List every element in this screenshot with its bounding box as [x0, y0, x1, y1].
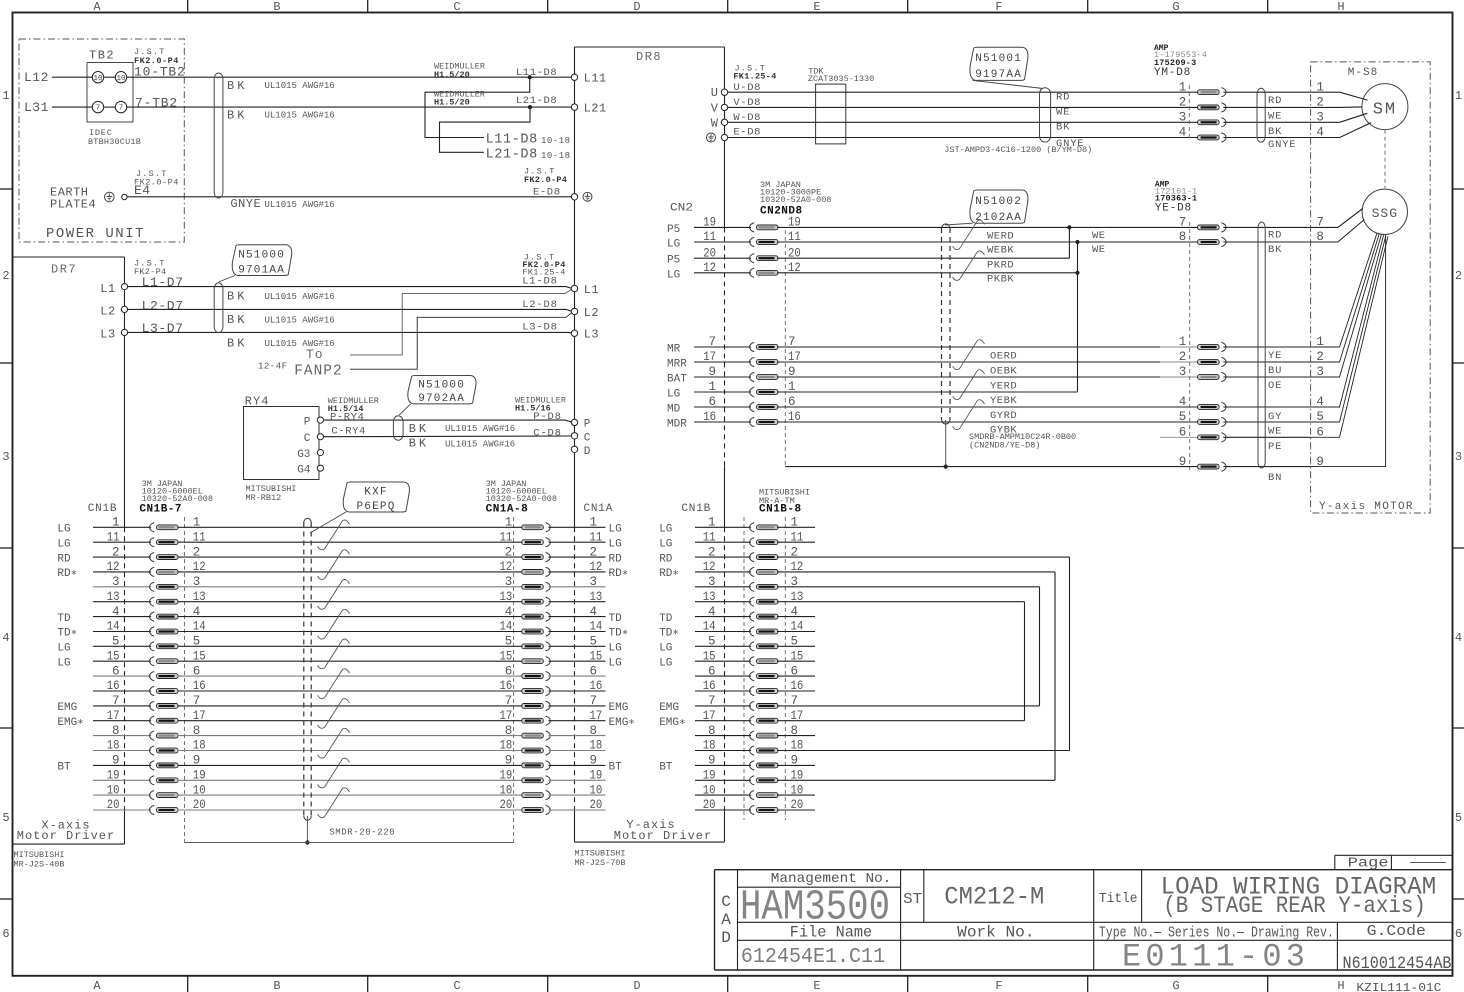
svg-text:1: 1	[505, 516, 513, 530]
svg-text:15: 15	[500, 649, 513, 663]
svg-text:LG: LG	[659, 538, 672, 550]
SMDR-20-220 cable sheath (dashed)	[303, 523, 305, 817]
cable sheath to SSG encoder	[1258, 222, 1265, 468]
svg-text:UL1015 AWG#16: UL1015 AWG#16	[445, 440, 515, 450]
svg-text:9: 9	[1179, 455, 1187, 469]
svg-text:MR-J2S-70B: MR-J2S-70B	[575, 858, 626, 868]
connector boundary dashed lines	[184, 517, 186, 843]
svg-text:L2-D7: L2-D7	[142, 298, 184, 313]
wire WE to YE-D8 pin 7	[1069, 226, 1197, 228]
svg-text:RD: RD	[609, 553, 623, 565]
svg-text:V: V	[711, 101, 719, 115]
svg-text:E4: E4	[134, 183, 151, 198]
wire V-D8 to YM-D8 pin 2	[728, 106, 1198, 108]
svg-text:LG: LG	[609, 524, 622, 536]
svg-text:BT: BT	[659, 762, 673, 774]
svg-text:DR7: DR7	[51, 263, 77, 277]
svg-text:LG: LG	[609, 643, 622, 655]
svg-text:12: 12	[590, 560, 603, 574]
svg-text:17: 17	[590, 709, 603, 723]
svg-text:UL1015 AWG#16: UL1015 AWG#16	[265, 339, 335, 349]
svg-text:MR: MR	[667, 344, 681, 356]
svg-text:L12: L12	[24, 70, 49, 85]
svg-text:GNYE: GNYE	[1268, 139, 1296, 151]
svg-text:E: E	[813, 979, 820, 992]
X-axis motor driver box	[13, 256, 125, 258]
svg-text:L11-D8: L11-D8	[486, 133, 538, 148]
servo motor SM	[1362, 84, 1408, 130]
svg-text:BK: BK	[227, 79, 247, 93]
svg-text:WE: WE	[1268, 426, 1282, 438]
svg-text:LG: LG	[57, 524, 70, 536]
svg-text:Title: Title	[1099, 891, 1138, 907]
svg-text:TD: TD	[609, 613, 623, 625]
svg-text:D: D	[633, 979, 640, 992]
svg-text:RD: RD	[659, 553, 673, 565]
wire YE-D8 pin 6 to M-S8	[1223, 436, 1310, 438]
svg-text:BK: BK	[409, 422, 429, 436]
svg-text:G: G	[1172, 0, 1179, 14]
svg-text:8: 8	[505, 724, 513, 738]
svg-text:OEBK: OEBK	[990, 366, 1017, 378]
svg-text:LG: LG	[57, 538, 70, 550]
svg-text:13: 13	[500, 590, 513, 604]
svg-text:JST-AMPD3-4C16-1200 (B/YM-D8): JST-AMPD3-4C16-1200 (B/YM-D8)	[944, 145, 1092, 155]
svg-text:12: 12	[500, 560, 513, 574]
cable sheath DR7 wires	[214, 283, 223, 333]
svg-text:P: P	[304, 417, 311, 429]
svg-text:GY: GY	[1268, 411, 1282, 423]
KXF P6EPQ balloon	[343, 482, 409, 512]
wire TB2 internal top	[104, 76, 116, 78]
svg-text:L1: L1	[100, 282, 115, 296]
svg-text:BK: BK	[227, 109, 247, 123]
wire L2-D7 to DR8	[128, 309, 572, 311]
wire YE-D8 pin 8 to M-S8	[1223, 241, 1310, 243]
svg-text:BK: BK	[1268, 126, 1282, 138]
svg-text:TB2: TB2	[89, 49, 115, 63]
svg-text:9197AA: 9197AA	[975, 69, 1022, 81]
svg-text:UL1015 AWG#16: UL1015 AWG#16	[445, 424, 515, 434]
svg-text:CN2: CN2	[670, 203, 693, 215]
svg-text:4: 4	[590, 605, 598, 619]
svg-text:E-D8: E-D8	[733, 127, 761, 139]
svg-text:RD: RD	[1268, 230, 1282, 242]
svg-text:CN1B: CN1B	[681, 503, 711, 515]
cable sheath to SM motor	[1257, 88, 1265, 142]
svg-text:EMG: EMG	[659, 702, 679, 714]
svg-text:6: 6	[1455, 927, 1462, 941]
svg-text:4: 4	[1179, 126, 1187, 140]
wire 7-TB2 / L21-D8 (BK)	[127, 106, 572, 108]
svg-text:5: 5	[1179, 410, 1187, 424]
wire TB2 internal bottom	[104, 106, 116, 108]
svg-text:L1-D8: L1-D8	[522, 275, 558, 287]
svg-text:2102AA: 2102AA	[975, 212, 1022, 224]
svg-text:(CN2ND8/YE-D8): (CN2ND8/YE-D8)	[969, 441, 1040, 451]
balloon N51001 9197AA	[970, 47, 1028, 80]
To FANP2 tap wires	[350, 290, 572, 355]
svg-text:BK: BK	[227, 313, 247, 327]
svg-text:L21-D8: L21-D8	[516, 95, 557, 107]
junction LG pin 12	[1075, 271, 1079, 275]
svg-text:WE: WE	[1092, 230, 1106, 242]
svg-text:UL1015 AWG#16: UL1015 AWG#16	[265, 200, 335, 210]
balloon N51000 9702AA	[408, 376, 476, 404]
loop pin13-pin17	[1024, 602, 1026, 721]
cable sheath P/C wires	[393, 416, 403, 440]
svg-text:SMDR-20-220: SMDR-20-220	[329, 828, 395, 838]
svg-text:W: W	[711, 116, 719, 130]
svg-text:2: 2	[590, 545, 598, 559]
YE-D8 boundary dashed	[1189, 222, 1191, 470]
svg-text:Motor Driver: Motor Driver	[17, 829, 115, 843]
svg-text:2: 2	[1179, 350, 1187, 364]
DR8 terminal W	[721, 119, 727, 125]
svg-text:9: 9	[590, 754, 598, 768]
svg-text:YERD: YERD	[990, 381, 1017, 393]
wire GYBK	[777, 421, 1198, 423]
svg-text:RD: RD	[1056, 92, 1070, 104]
svg-text:L3: L3	[100, 328, 115, 342]
svg-text:RD∗: RD∗	[609, 568, 629, 580]
TB2 contact 7 (right)	[115, 101, 126, 112]
wire WEBK (LG 11)	[777, 241, 1078, 243]
encoder SSG	[1362, 189, 1407, 234]
svg-text:P: P	[584, 419, 591, 431]
svg-text:7: 7	[1179, 216, 1187, 230]
wire PKRD (P5 20)	[777, 257, 1069, 259]
svg-text:9701AA: 9701AA	[238, 264, 285, 276]
wire E-D8 to YM-D8 pin 4	[728, 137, 1198, 139]
svg-text:To: To	[306, 347, 324, 362]
svg-text:6: 6	[505, 664, 513, 678]
wire W-D8 to YM-D8 pin 3	[728, 121, 1198, 123]
svg-text:GNYE: GNYE	[230, 197, 261, 211]
svg-text:1: 1	[2, 89, 9, 103]
svg-text:N610012454AB: N610012454AB	[1343, 954, 1452, 974]
svg-text:L3: L3	[584, 328, 599, 342]
svg-text:L21: L21	[584, 101, 607, 115]
svg-text:5: 5	[505, 635, 513, 649]
svg-text:1: 1	[1455, 89, 1462, 103]
svg-text:OERD: OERD	[990, 351, 1017, 363]
wire YE-D8 pin 3 to M-S8	[1223, 376, 1310, 378]
wire L31 to TB2	[52, 106, 92, 108]
svg-text:2: 2	[1455, 269, 1462, 283]
svg-text:10: 10	[590, 783, 603, 797]
svg-text:PKBK: PKBK	[987, 273, 1014, 285]
svg-text:6: 6	[1179, 426, 1187, 440]
loop pin2-pin18	[1069, 557, 1071, 750]
title block	[715, 869, 1453, 871]
wire L1-D7 to DR8	[128, 287, 572, 289]
svg-text:MD: MD	[667, 404, 681, 416]
svg-text:UL1015 AWG#16: UL1015 AWG#16	[265, 315, 335, 325]
svg-text:2: 2	[505, 545, 513, 559]
svg-text:MDR: MDR	[667, 419, 687, 431]
svg-text:UL1015 AWG#16: UL1015 AWG#16	[265, 111, 335, 121]
svg-text:A: A	[721, 911, 731, 929]
svg-text:WEBK: WEBK	[987, 244, 1014, 256]
cable sheath for power wires	[214, 73, 223, 198]
svg-text:20: 20	[590, 798, 603, 812]
svg-text:C: C	[721, 893, 731, 911]
svg-text:4: 4	[1179, 395, 1187, 409]
wire YE-D8 pin 7 to M-S8	[1223, 226, 1310, 228]
TB2 contact 10 (left)	[92, 72, 103, 83]
svg-text:N51002: N51002	[975, 196, 1022, 208]
svg-text:11: 11	[590, 530, 603, 544]
DR8 terminal L1	[571, 285, 577, 291]
balloon N51002 2102AA	[970, 190, 1028, 223]
svg-text:7: 7	[96, 105, 101, 113]
svg-text:8: 8	[1179, 230, 1187, 244]
svg-text:C-RY4: C-RY4	[331, 426, 366, 438]
svg-text:3: 3	[505, 575, 513, 589]
svg-text:11: 11	[500, 530, 513, 544]
DR8 terminal D	[571, 446, 577, 452]
svg-text:3: 3	[590, 575, 598, 589]
svg-text:P-D8: P-D8	[533, 411, 561, 423]
svg-text:Page: Page	[1348, 856, 1389, 872]
svg-text:BAT: BAT	[667, 374, 687, 386]
wire PKBK (LG 12)	[777, 272, 1078, 274]
svg-text:WERD: WERD	[987, 231, 1014, 243]
svg-text:15: 15	[590, 649, 603, 663]
RY4 terminal G3	[317, 449, 323, 455]
svg-text:7: 7	[590, 694, 598, 708]
wire YE-D8 pin 4 to M-S8	[1223, 406, 1310, 408]
M-S8 motor enclosure (dash-dot)	[1311, 62, 1431, 513]
svg-text:1: 1	[1179, 335, 1187, 349]
DR8 terminal P	[571, 419, 577, 425]
svg-text:RD: RD	[1268, 95, 1282, 107]
terminal block TB2	[87, 63, 133, 123]
DR8 terminal L21	[571, 104, 577, 110]
svg-text:RD∗: RD∗	[57, 568, 77, 580]
junction LG pins 11/12	[1075, 240, 1079, 244]
RY4 terminal C	[317, 434, 323, 440]
svg-text:YM-D8: YM-D8	[1154, 67, 1191, 79]
svg-text:LG: LG	[659, 657, 672, 669]
svg-text:5: 5	[1455, 811, 1462, 825]
svg-text:12-4F: 12-4F	[258, 362, 288, 372]
loop pin3-pin7	[1039, 587, 1041, 706]
wire 10-TB2 / L11-D8 (BK)	[127, 76, 572, 78]
svg-text:G.Code: G.Code	[1367, 923, 1426, 940]
cable sheath YM-D8 run	[1040, 88, 1051, 142]
svg-text:7-TB2: 7-TB2	[135, 96, 178, 111]
svg-text:POWER UNIT: POWER UNIT	[46, 226, 145, 242]
svg-text:BN: BN	[1268, 472, 1282, 484]
RY4 box	[244, 407, 320, 480]
svg-text:4: 4	[2, 631, 9, 645]
TB2 contact 7 (left)	[92, 101, 103, 112]
svg-text:TD: TD	[57, 613, 71, 625]
svg-text:3: 3	[1455, 450, 1462, 464]
svg-text:TD∗: TD∗	[609, 628, 629, 640]
svg-text:CN1A: CN1A	[584, 503, 614, 515]
svg-text:L3-D8: L3-D8	[522, 321, 558, 333]
svg-text:M-S8: M-S8	[1348, 67, 1378, 79]
terminal E4	[122, 194, 127, 199]
svg-text:BTBH30CU1B: BTBH30CU1B	[88, 137, 141, 147]
junction P5 pins 19/20	[1067, 225, 1071, 229]
svg-text:BK: BK	[1056, 122, 1070, 134]
svg-text:N51000: N51000	[418, 379, 465, 391]
svg-text:L31: L31	[24, 100, 49, 115]
svg-text:PE: PE	[1268, 441, 1282, 453]
shield bracket line	[185, 842, 514, 844]
svg-text:G: G	[1172, 979, 1179, 992]
wire YE-D8 pin 2 to M-S8	[1223, 361, 1310, 363]
svg-text:UL1015 AWG#16: UL1015 AWG#16	[265, 81, 335, 91]
svg-text:EMG∗: EMG∗	[609, 717, 635, 729]
svg-text:BK: BK	[1268, 244, 1282, 256]
DR8 terminal U	[721, 89, 727, 95]
svg-text:LG: LG	[57, 643, 70, 655]
svg-text:WE: WE	[1268, 111, 1282, 123]
terminal L1 (DR7)	[121, 284, 127, 290]
wire E4 / GNYE earth	[127, 196, 572, 198]
svg-text:H: H	[1337, 0, 1344, 14]
svg-text:3: 3	[2, 450, 9, 464]
loop pin12-pin19	[1054, 572, 1056, 780]
terminal L2 (DR7)	[121, 306, 127, 312]
DR8 terminal L2	[571, 308, 577, 314]
svg-text:7: 7	[119, 105, 124, 113]
svg-text:CM212-M: CM212-M	[944, 883, 1044, 912]
svg-text:UL1015 AWG#16: UL1015 AWG#16	[265, 292, 335, 302]
svg-text:MRR: MRR	[667, 359, 687, 371]
wire WERD (P5 19)	[777, 226, 1069, 228]
svg-text:BK: BK	[409, 437, 429, 451]
svg-text:LG: LG	[667, 389, 680, 401]
svg-text:L3-D7: L3-D7	[142, 321, 184, 336]
svg-text:FK2.0-P4: FK2.0-P4	[524, 175, 567, 185]
svg-text:D: D	[633, 0, 640, 14]
wire YM-D8 pin 2 to M-S8	[1223, 106, 1310, 108]
svg-text:19: 19	[590, 769, 603, 783]
svg-text:N51000: N51000	[238, 250, 285, 262]
svg-text:C: C	[453, 0, 460, 14]
svg-text:A: A	[93, 0, 101, 14]
svg-text:BT: BT	[57, 762, 71, 774]
wire YE-D8 pin 9 to M-S8	[1223, 466, 1310, 468]
svg-text:B: B	[273, 979, 280, 992]
RY4 terminal G4	[317, 465, 323, 471]
svg-text:3: 3	[1179, 365, 1187, 379]
svg-text:PLATE4: PLATE4	[50, 198, 96, 212]
svg-text:N51001: N51001	[975, 53, 1022, 65]
svg-text:G4: G4	[297, 465, 311, 477]
svg-text:Motor Driver: Motor Driver	[614, 829, 712, 843]
svg-text:3: 3	[1179, 111, 1187, 125]
svg-text:YE: YE	[1268, 350, 1282, 362]
CN2 twisted pair cable (dashed sheath)	[941, 228, 943, 420]
svg-text:LG: LG	[667, 269, 680, 281]
svg-text:10-18: 10-18	[541, 151, 571, 161]
wire U-D8 to YM-D8 pin 1	[728, 91, 1198, 93]
svg-text:CN1B-7: CN1B-7	[139, 504, 182, 516]
svg-text:L1: L1	[584, 283, 599, 297]
svg-text:D: D	[721, 929, 731, 947]
svg-text:FANP2: FANP2	[294, 363, 343, 379]
svg-text:P5: P5	[667, 255, 680, 267]
svg-text:8: 8	[590, 724, 598, 738]
POWER UNIT enclosure (dash-dot)	[19, 39, 184, 242]
svg-text:14: 14	[500, 620, 513, 634]
svg-text:PKRD: PKRD	[987, 259, 1014, 271]
svg-text:CN1B: CN1B	[88, 503, 118, 515]
jumper P5 19-20	[1068, 227, 1070, 258]
svg-text:2: 2	[1179, 96, 1187, 110]
svg-text:F: F	[995, 979, 1002, 992]
svg-text:ZCAT3035-1330: ZCAT3035-1330	[808, 74, 874, 84]
wire OEBK	[777, 361, 1160, 363]
svg-text:EMG: EMG	[57, 702, 77, 714]
svg-text:KXF: KXF	[364, 487, 387, 499]
svg-text:17: 17	[500, 709, 513, 723]
svg-text:TD∗: TD∗	[659, 628, 679, 640]
svg-text:E: E	[813, 0, 820, 14]
svg-text:4: 4	[1455, 631, 1462, 645]
wire YERD	[777, 376, 1160, 378]
wire P-RY4 to P-D8	[324, 420, 572, 422]
svg-text:YE-D8: YE-D8	[1155, 202, 1192, 214]
DR8 terminal L11	[571, 74, 577, 80]
wire C-RY4 to C-D8	[324, 435, 572, 438]
svg-text:EMG: EMG	[609, 702, 629, 714]
junction cable to shield bracket	[305, 840, 309, 844]
svg-text:10: 10	[93, 75, 103, 83]
wire PE to pin 6	[1160, 436, 1198, 438]
svg-text:H1.5/20: H1.5/20	[434, 97, 470, 107]
svg-text:9702AA: 9702AA	[418, 393, 465, 405]
svg-text:LG: LG	[667, 239, 680, 251]
svg-text:H1.5/20: H1.5/20	[434, 70, 470, 80]
RY4 terminal P	[317, 417, 323, 423]
svg-text:EMG∗: EMG∗	[57, 717, 83, 729]
svg-text:SSG: SSG	[1372, 206, 1398, 221]
svg-text:4: 4	[505, 605, 513, 619]
svg-text:P-RY4: P-RY4	[330, 412, 365, 424]
wire YM-D8 pin 1 to M-S8	[1223, 91, 1310, 93]
svg-text:13: 13	[590, 590, 603, 604]
svg-text:9: 9	[505, 754, 513, 768]
svg-text:L2: L2	[584, 306, 599, 320]
svg-text:EMG∗: EMG∗	[659, 717, 685, 729]
svg-text:LG: LG	[659, 643, 672, 655]
wire WE to YE-D8 pin 8	[1078, 241, 1198, 243]
Page box	[1335, 854, 1453, 856]
svg-text:ST: ST	[903, 891, 922, 908]
branch to L21-D8 10-18	[528, 105, 532, 109]
svg-text:LG: LG	[659, 524, 672, 536]
svg-text:U: U	[711, 86, 718, 100]
twisted pair marks CN1B-7/CN1A-8 cable	[318, 520, 350, 550]
svg-text:10-18: 10-18	[541, 136, 571, 146]
wire pin 9 to SSG body	[1311, 235, 1386, 467]
page number blank	[1410, 862, 1446, 864]
svg-text:20: 20	[500, 798, 513, 812]
svg-text:P5: P5	[667, 224, 680, 236]
svg-text:L11: L11	[584, 72, 607, 86]
svg-text:C: C	[453, 979, 460, 992]
DR8 terminal V	[721, 104, 727, 110]
wire YE-D8 pin 5 to M-S8	[1223, 421, 1310, 423]
